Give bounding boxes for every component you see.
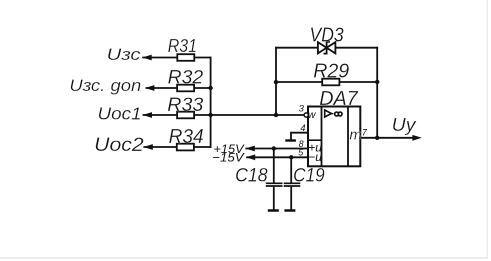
junction R29 right xyxy=(375,80,379,84)
wire top branch left of VD3 xyxy=(275,47,318,49)
svg-text:3: 3 xyxy=(299,104,305,115)
wire C19 lower lead xyxy=(290,187,292,211)
svg-text:4: 4 xyxy=(300,123,305,134)
wire R31 to bus xyxy=(194,57,211,59)
svg-text:R33: R33 xyxy=(167,94,203,116)
svg-text:C18: C18 xyxy=(235,165,268,186)
junction C18 +15V rail xyxy=(272,146,276,150)
scan page edge bottom xyxy=(0,257,488,259)
svg-text:R31: R31 xyxy=(168,36,197,56)
wire R32 to bus xyxy=(195,87,211,89)
arrow Uoc2 input xyxy=(143,144,152,150)
wire -15V rail / pin 5 xyxy=(246,156,308,158)
svg-text:VD3: VD3 xyxy=(310,24,344,46)
wire input bus vertical xyxy=(210,57,212,148)
junction C19 -15V rail xyxy=(289,155,293,159)
capacitor C19 xyxy=(284,165,325,186)
scan page edge right xyxy=(486,0,488,258)
junction bus row2 xyxy=(208,86,212,90)
svg-text:Uзс: Uзс xyxy=(107,45,141,64)
wire C18 upper lead xyxy=(273,149,275,183)
junction output node xyxy=(375,136,379,140)
junction R29 left xyxy=(274,80,278,84)
resistor R29 xyxy=(313,60,349,85)
arrow Uoc1 input xyxy=(143,112,152,118)
wire C19 upper lead xyxy=(290,157,292,182)
wire R33 to op-amp pin 3 xyxy=(194,114,304,116)
resistor R34 xyxy=(169,126,204,151)
svg-text:Uос1: Uос1 xyxy=(98,103,142,123)
arrow -15V supply xyxy=(246,154,255,160)
ground C19 xyxy=(284,209,295,212)
wire output pin 7 xyxy=(360,137,414,139)
wire R29 branch left xyxy=(276,81,322,83)
svg-text:R34: R34 xyxy=(169,126,204,148)
resistor R32 xyxy=(168,68,204,92)
wire row4 Uoc2 to R34 xyxy=(143,146,176,148)
pin 3 inversion circle xyxy=(304,113,308,117)
ground pin 4 xyxy=(285,139,296,141)
junction inverting input node xyxy=(274,113,278,117)
svg-text:Uy: Uy xyxy=(392,115,417,135)
diode VD3 bidirectional zener xyxy=(310,24,344,53)
capacitor C18 xyxy=(235,165,282,186)
wire top branch right of VD3 xyxy=(335,47,378,49)
arrow +15V supply xyxy=(245,146,254,152)
wire R29 branch right xyxy=(339,81,377,83)
svg-text:m: m xyxy=(349,127,362,144)
svg-text:Uос2: Uос2 xyxy=(94,134,144,156)
ground C18 xyxy=(268,209,279,212)
svg-text:C19: C19 xyxy=(293,165,325,186)
arrow Uzs input xyxy=(142,55,151,61)
svg-text:Uзс. gon: Uзс. gon xyxy=(69,76,141,95)
svg-text:R32: R32 xyxy=(168,68,204,89)
svg-text:−15V: −15V xyxy=(212,151,245,165)
wire R34 to bus xyxy=(194,146,212,148)
svg-text:R29: R29 xyxy=(313,60,349,82)
svg-text:DA7: DA7 xyxy=(319,88,358,110)
wire C18 lower lead xyxy=(273,187,275,211)
wire pin 4 xyxy=(291,133,308,141)
svg-text:−u: −u xyxy=(308,150,322,164)
op-amp DA7 xyxy=(298,88,368,166)
wire feedback right vertical xyxy=(376,47,378,138)
wire feedback left vertical xyxy=(275,47,277,115)
wire row1 Uzs to R31 xyxy=(142,57,177,59)
junction bus row3 xyxy=(208,113,212,117)
wire row3 Uoc1 to R33 xyxy=(143,114,178,116)
wire row2 Uzs.dop to R32 xyxy=(146,87,177,89)
arrow Uy output xyxy=(412,135,421,141)
resistor R33 xyxy=(167,94,203,118)
op-amp amplifier symbol triangle-infinity xyxy=(325,110,332,117)
wire +15V rail / pin 8 xyxy=(245,148,308,150)
resistor R31 xyxy=(168,36,197,61)
arrow Uzs.dop input xyxy=(145,85,154,91)
